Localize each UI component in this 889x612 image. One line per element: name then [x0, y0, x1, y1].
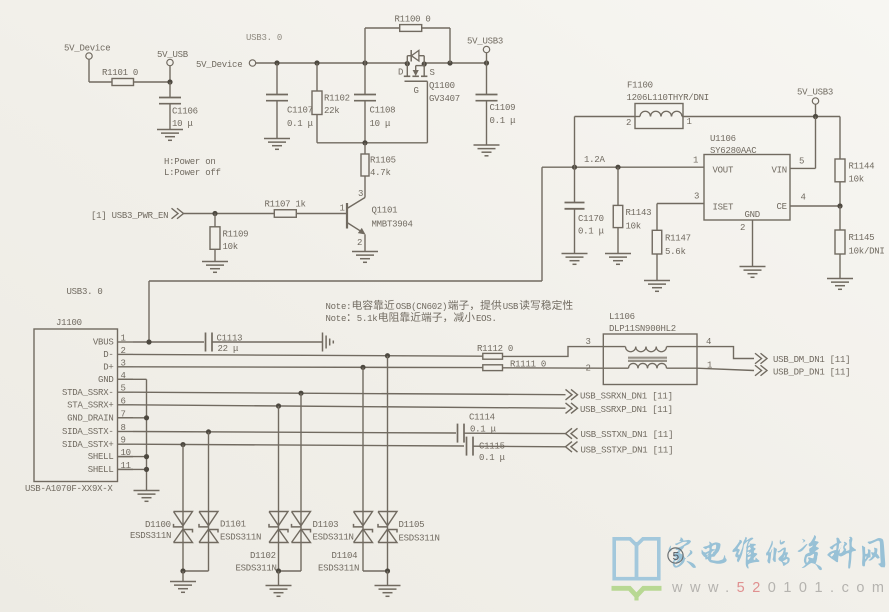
node junction D1102 tap: [276, 403, 281, 408]
node junction D1105 tap: [385, 353, 390, 358]
svg-text:3: 3: [694, 192, 699, 202]
svg-text:R1145: R1145: [849, 233, 875, 243]
net label USB_DM_DN1: [755, 353, 850, 365]
svg-text:5: 5: [799, 157, 804, 167]
wire ESD pair 2 bottoms: [276, 568, 301, 585]
svg-text:10 μ: 10 μ: [370, 119, 391, 129]
node junctions: [572, 165, 621, 170]
text USB3.0 section label: [246, 33, 282, 43]
svg-text:R1112 0: R1112 0: [477, 344, 513, 354]
svg-text:USB_DP_DN1 [11]: USB_DP_DN1 [11]: [773, 368, 850, 378]
label D1102: [236, 551, 277, 574]
wire D-: [133, 354, 483, 356]
wire: [464, 432, 566, 434]
wire choke pin4 out: [697, 347, 754, 359]
svg-text:Q1101: Q1101: [372, 206, 398, 216]
svg-text:5.6k: 5.6k: [665, 247, 686, 257]
svg-text:CE: CE: [777, 202, 787, 212]
svg-text:0.1 μ: 0.1 μ: [287, 119, 314, 129]
ground: [352, 252, 378, 263]
svg-text:10k/DNI: 10k/DNI: [849, 247, 885, 257]
svg-text:D1101: D1101: [220, 520, 246, 530]
svg-text:10k: 10k: [223, 242, 238, 252]
node 1.2A label: [584, 155, 605, 165]
wire SIDA_SSTX-: [133, 432, 456, 434]
capacitor C1170: [565, 167, 605, 253]
svg-text:USB-A1070F-XX9X-X: USB-A1070F-XX9X-X: [25, 484, 113, 494]
svg-text:D1100: D1100: [145, 520, 171, 530]
capacitor C1106: [159, 82, 198, 130]
wire F1100 to 5V node: [683, 116, 840, 118]
wire choke pin1 out: [697, 368, 754, 370]
ESD diode D1102: [269, 512, 288, 543]
wire D1100 column: [182, 445, 184, 571]
ground: [157, 130, 183, 141]
svg-text:ESDS311N: ESDS311N: [399, 534, 440, 544]
svg-text:Note:: Note:: [326, 302, 352, 312]
svg-text:C1106: C1106: [172, 107, 198, 117]
svg-text:1206L110THYR/DNI: 1206L110THYR/DNI: [627, 93, 709, 103]
svg-text:C1108: C1108: [370, 106, 396, 116]
svg-text:1.2A: 1.2A: [584, 155, 605, 165]
svg-text:ESDS311N: ESDS311N: [130, 531, 171, 541]
resistor R1143: [613, 167, 651, 253]
wire D1102 column: [278, 406, 280, 571]
svg-text:C1170: C1170: [578, 214, 604, 224]
ground: [644, 281, 670, 292]
svg-text:D1105: D1105: [399, 520, 425, 530]
svg-text:R1101 0: R1101 0: [102, 68, 138, 78]
svg-text:10 μ: 10 μ: [172, 119, 193, 129]
node junction VBUS: [146, 339, 151, 344]
wire 1.2A node line: [542, 166, 704, 168]
svg-text:F1100: F1100: [627, 81, 653, 91]
svg-text:GND_DRAIN: GND_DRAIN: [67, 413, 113, 423]
wire: [89, 81, 112, 83]
svg-text:SHELL: SHELL: [88, 452, 114, 462]
svg-text:D: D: [398, 68, 403, 78]
watermark url www.520101.com: [671, 580, 889, 596]
svg-text:[1] USB3_PWR_EN: [1] USB3_PWR_EN: [91, 211, 168, 221]
wire VBUS: [133, 341, 204, 343]
ground: [266, 586, 292, 597]
label D1103: [313, 520, 354, 543]
svg-text:D-: D-: [103, 350, 113, 360]
svg-text:2: 2: [740, 223, 745, 233]
svg-text:2: 2: [357, 238, 362, 248]
svg-text:R1109: R1109: [223, 230, 249, 240]
capacitor C1113: [206, 333, 323, 355]
svg-text:10k: 10k: [626, 222, 641, 232]
ground: [264, 139, 290, 150]
svg-text:SY6280AAC: SY6280AAC: [710, 146, 757, 156]
svg-text:SIDA_SSTX+: SIDA_SSTX+: [62, 440, 114, 450]
text USB3.0 section label: [67, 287, 103, 297]
svg-text:3: 3: [358, 189, 363, 199]
svg-text:USB_SSTXN_DN1 [11]: USB_SSTXN_DN1 [11]: [581, 430, 674, 440]
svg-text:C1107: C1107: [287, 106, 313, 116]
inductor L1106 common-mode choke: [586, 312, 713, 385]
label D1101: [220, 520, 261, 543]
svg-text:DLP11SN900HL2: DLP11SN900HL2: [609, 324, 676, 334]
svg-text:0.1 μ: 0.1 μ: [490, 116, 517, 126]
resistor R1102: [312, 63, 350, 143]
svg-text:VIN: VIN: [772, 166, 787, 176]
terminal 5V_USB3 right: [797, 88, 833, 117]
svg-text:OSB(CN602): OSB(CN602): [396, 302, 448, 312]
label D1104: [318, 551, 359, 574]
svg-text:GND: GND: [745, 210, 760, 220]
label D1105: [399, 520, 440, 544]
node junction: [813, 114, 818, 119]
svg-text:S: S: [430, 68, 435, 78]
svg-text:H:Power on: H:Power on: [164, 157, 216, 167]
svg-text:SIDA_SSTX-: SIDA_SSTX-: [62, 427, 114, 437]
svg-text:C1113: C1113: [217, 334, 243, 344]
svg-text:ESDS311N: ESDS311N: [313, 533, 354, 543]
resistor R1109: [210, 214, 248, 262]
ground sideways: [323, 333, 334, 352]
svg-text:Note: Note: [326, 314, 347, 324]
svg-text:USB_DM_DN1 [11]: USB_DM_DN1 [11]: [773, 355, 850, 365]
capacitor C1114: [458, 413, 497, 443]
ground: [375, 586, 401, 597]
ground: [202, 262, 228, 273]
wire GND pin 2: [752, 220, 754, 267]
node junction D1103 tap: [298, 391, 303, 396]
svg-text:R1102: R1102: [324, 94, 350, 104]
svg-text:USB_SSTXP_DN1 [11]: USB_SSTXP_DN1 [11]: [581, 446, 674, 456]
fuse F1100: [575, 81, 709, 168]
wire STA_SSRX+: [133, 405, 566, 408]
svg-text:22k: 22k: [324, 106, 339, 116]
terminal 5V_Device rail input: [196, 60, 256, 70]
terminal 5V_USB3 left: [467, 37, 503, 64]
resistor R1101: [102, 68, 138, 86]
svg-text:5V_USB: 5V_USB: [157, 50, 189, 60]
terminal 5V_USB: [157, 50, 189, 82]
svg-text:GV3407: GV3407: [429, 94, 460, 104]
svg-text:C1114: C1114: [469, 413, 495, 423]
node junctions on rail: [274, 60, 489, 66]
ground: [134, 491, 160, 502]
svg-text:ESDS311N: ESDS311N: [220, 533, 261, 543]
transistor Q1100 P-MOSFET: [398, 50, 460, 104]
svg-text:USB3. 0: USB3. 0: [246, 33, 282, 43]
resistor R1145: [835, 206, 885, 279]
wire D1105 column: [387, 356, 389, 571]
svg-text:5V_USB3: 5V_USB3: [467, 37, 503, 47]
svg-text:D1103: D1103: [313, 520, 339, 530]
label D1100: [130, 520, 171, 541]
wire main rail: [256, 62, 487, 64]
ESD diode D1105: [378, 512, 397, 543]
wire D1104 column: [362, 367, 364, 571]
text H/L power note: [164, 157, 221, 178]
wire base: [296, 213, 347, 215]
node junctions GND chain: [144, 415, 149, 472]
svg-text:5: 5: [672, 550, 679, 564]
svg-text:ISET: ISET: [713, 203, 734, 213]
wire: [134, 81, 171, 83]
svg-text:4: 4: [801, 193, 806, 203]
svg-text:USB: USB: [503, 302, 519, 312]
ESD diode D1100: [174, 512, 193, 543]
svg-text:0.1 μ: 0.1 μ: [578, 227, 605, 237]
svg-text:5V_Device: 5V_Device: [196, 60, 242, 70]
svg-text:D1102: D1102: [250, 551, 276, 561]
net label USB_SSTXN_DN1: [566, 428, 674, 440]
ESD diode D1104: [354, 512, 373, 543]
net label USB_SSRXP_DN1: [566, 403, 673, 415]
wire CE: [790, 205, 840, 207]
wire ISET: [657, 203, 704, 205]
note text line 1: [326, 300, 573, 312]
node junction: [167, 79, 172, 84]
svg-text:R1100 0: R1100 0: [395, 15, 431, 25]
svg-text:J1100: J1100: [56, 318, 82, 328]
wire VIN: [790, 117, 816, 169]
wire D+ to choke pin2: [503, 367, 604, 369]
wire D1103 column: [300, 393, 302, 571]
wire: [184, 213, 275, 215]
svg-text:R1143: R1143: [626, 208, 652, 218]
svg-text:5V_Device: 5V_Device: [64, 44, 110, 54]
net label USB_DP_DN1: [755, 365, 850, 377]
watermark text 家电维修资料网: [669, 535, 886, 570]
wire ESD pair 1 bottoms: [180, 568, 208, 581]
watermark book logo: [612, 539, 662, 601]
svg-text:0.1 μ: 0.1 μ: [479, 453, 506, 463]
svg-text:EOS.: EOS.: [476, 314, 497, 324]
ESD diode D1103: [292, 512, 311, 543]
svg-text:2: 2: [586, 364, 591, 374]
svg-text:L:Power off: L:Power off: [164, 168, 221, 178]
connector J1100: [25, 318, 133, 494]
svg-text:5V_USB3: 5V_USB3: [797, 88, 833, 98]
terminal 5V_Device input: [64, 44, 110, 83]
node junction D1101 tap: [206, 429, 211, 434]
node junction D1104 tap: [360, 365, 365, 370]
svg-text:R1147: R1147: [665, 234, 691, 244]
svg-text:D1104: D1104: [332, 551, 358, 561]
svg-text:1: 1: [687, 117, 692, 127]
svg-text:ESDS311N: ESDS311N: [236, 564, 277, 574]
svg-text:R1105: R1105: [370, 156, 396, 166]
svg-text:L1106: L1106: [609, 312, 635, 322]
svg-text:VOUT: VOUT: [713, 166, 734, 176]
svg-text:G: G: [414, 86, 419, 96]
wire VOUT to VBUS route: [149, 167, 542, 342]
svg-text:USB_SSRXP_DN1 [11]: USB_SSRXP_DN1 [11]: [580, 405, 673, 415]
svg-text:SHELL: SHELL: [88, 465, 114, 475]
wire ESD pair 3 bottoms: [363, 568, 390, 585]
svg-text:2: 2: [626, 118, 631, 128]
resistor R1147: [652, 204, 691, 281]
svg-text:GND: GND: [98, 375, 113, 385]
IC U1106 SY6280AAC: [693, 134, 806, 233]
svg-text:STA_SSRX+: STA_SSRX+: [67, 400, 113, 410]
resistor R1144: [835, 159, 874, 206]
svg-text:www.520101.com: www.520101.com: [671, 580, 889, 596]
resistor R1112: [477, 344, 513, 359]
transistor Q1101 NPN: [340, 189, 413, 252]
wire GND chain: [118, 379, 147, 490]
svg-text:1: 1: [340, 204, 345, 214]
svg-text:5.1k: 5.1k: [357, 314, 378, 324]
page number 5 circled: [668, 548, 683, 564]
svg-text:USB_SSRXN_DN1 [11]: USB_SSRXN_DN1 [11]: [580, 392, 673, 402]
ground: [170, 582, 196, 593]
svg-text:R1107 1k: R1107 1k: [265, 200, 306, 210]
svg-text:22 μ: 22 μ: [218, 344, 239, 354]
ground: [474, 145, 500, 156]
net label USB_SSRXN_DN1: [566, 389, 673, 401]
svg-text:D+: D+: [103, 362, 113, 372]
svg-text:STDA_SSRX-: STDA_SSRX-: [62, 388, 114, 398]
resistor R1100: [365, 15, 450, 64]
resistor R1107: [265, 200, 306, 218]
resistor R1105: [361, 143, 396, 197]
capacitor C1115: [467, 437, 506, 463]
node junction: [212, 211, 217, 216]
ESD diode D1101: [199, 512, 218, 543]
capacitor C1108: [354, 63, 395, 143]
svg-text:4.7k: 4.7k: [370, 168, 391, 178]
resistor R1111: [483, 360, 546, 371]
svg-text:4: 4: [706, 337, 711, 347]
ground: [740, 267, 766, 278]
wire D+: [133, 366, 483, 369]
ground: [827, 279, 853, 290]
note text line 2: [326, 312, 497, 324]
node junction: [837, 203, 842, 208]
capacitor C1107: [266, 63, 314, 139]
wire STDA_SSRX-: [133, 392, 566, 395]
svg-text:R1144: R1144: [849, 162, 875, 172]
net label USB_SSTXP_DN1: [566, 442, 674, 456]
svg-text:USB3. 0: USB3. 0: [67, 287, 103, 297]
svg-text:1: 1: [693, 156, 698, 166]
svg-text:VBUS: VBUS: [93, 338, 114, 348]
capacitor C1109: [476, 63, 517, 145]
wire to R1144: [839, 117, 841, 160]
svg-text:3: 3: [586, 337, 591, 347]
node junction gate/divider: [362, 140, 367, 145]
ground: [605, 254, 631, 265]
svg-text:Q1100: Q1100: [429, 81, 455, 91]
ground: [562, 254, 588, 265]
svg-text:C1109: C1109: [490, 103, 516, 113]
svg-text:MMBT3904: MMBT3904: [372, 220, 413, 230]
node junction D1100 tap: [180, 442, 185, 447]
wire gate route to divider: [317, 81, 427, 143]
svg-text:ESDS311N: ESDS311N: [318, 564, 359, 574]
wire D- to choke pin3: [503, 347, 604, 357]
wire SIDA_SSTX+: [133, 444, 464, 446]
wire: [473, 445, 566, 448]
net label USB3_PWR_EN: [91, 208, 184, 221]
wire D1101 column: [208, 432, 210, 571]
svg-text:U1106: U1106: [710, 134, 736, 144]
svg-text:10k: 10k: [849, 175, 864, 185]
